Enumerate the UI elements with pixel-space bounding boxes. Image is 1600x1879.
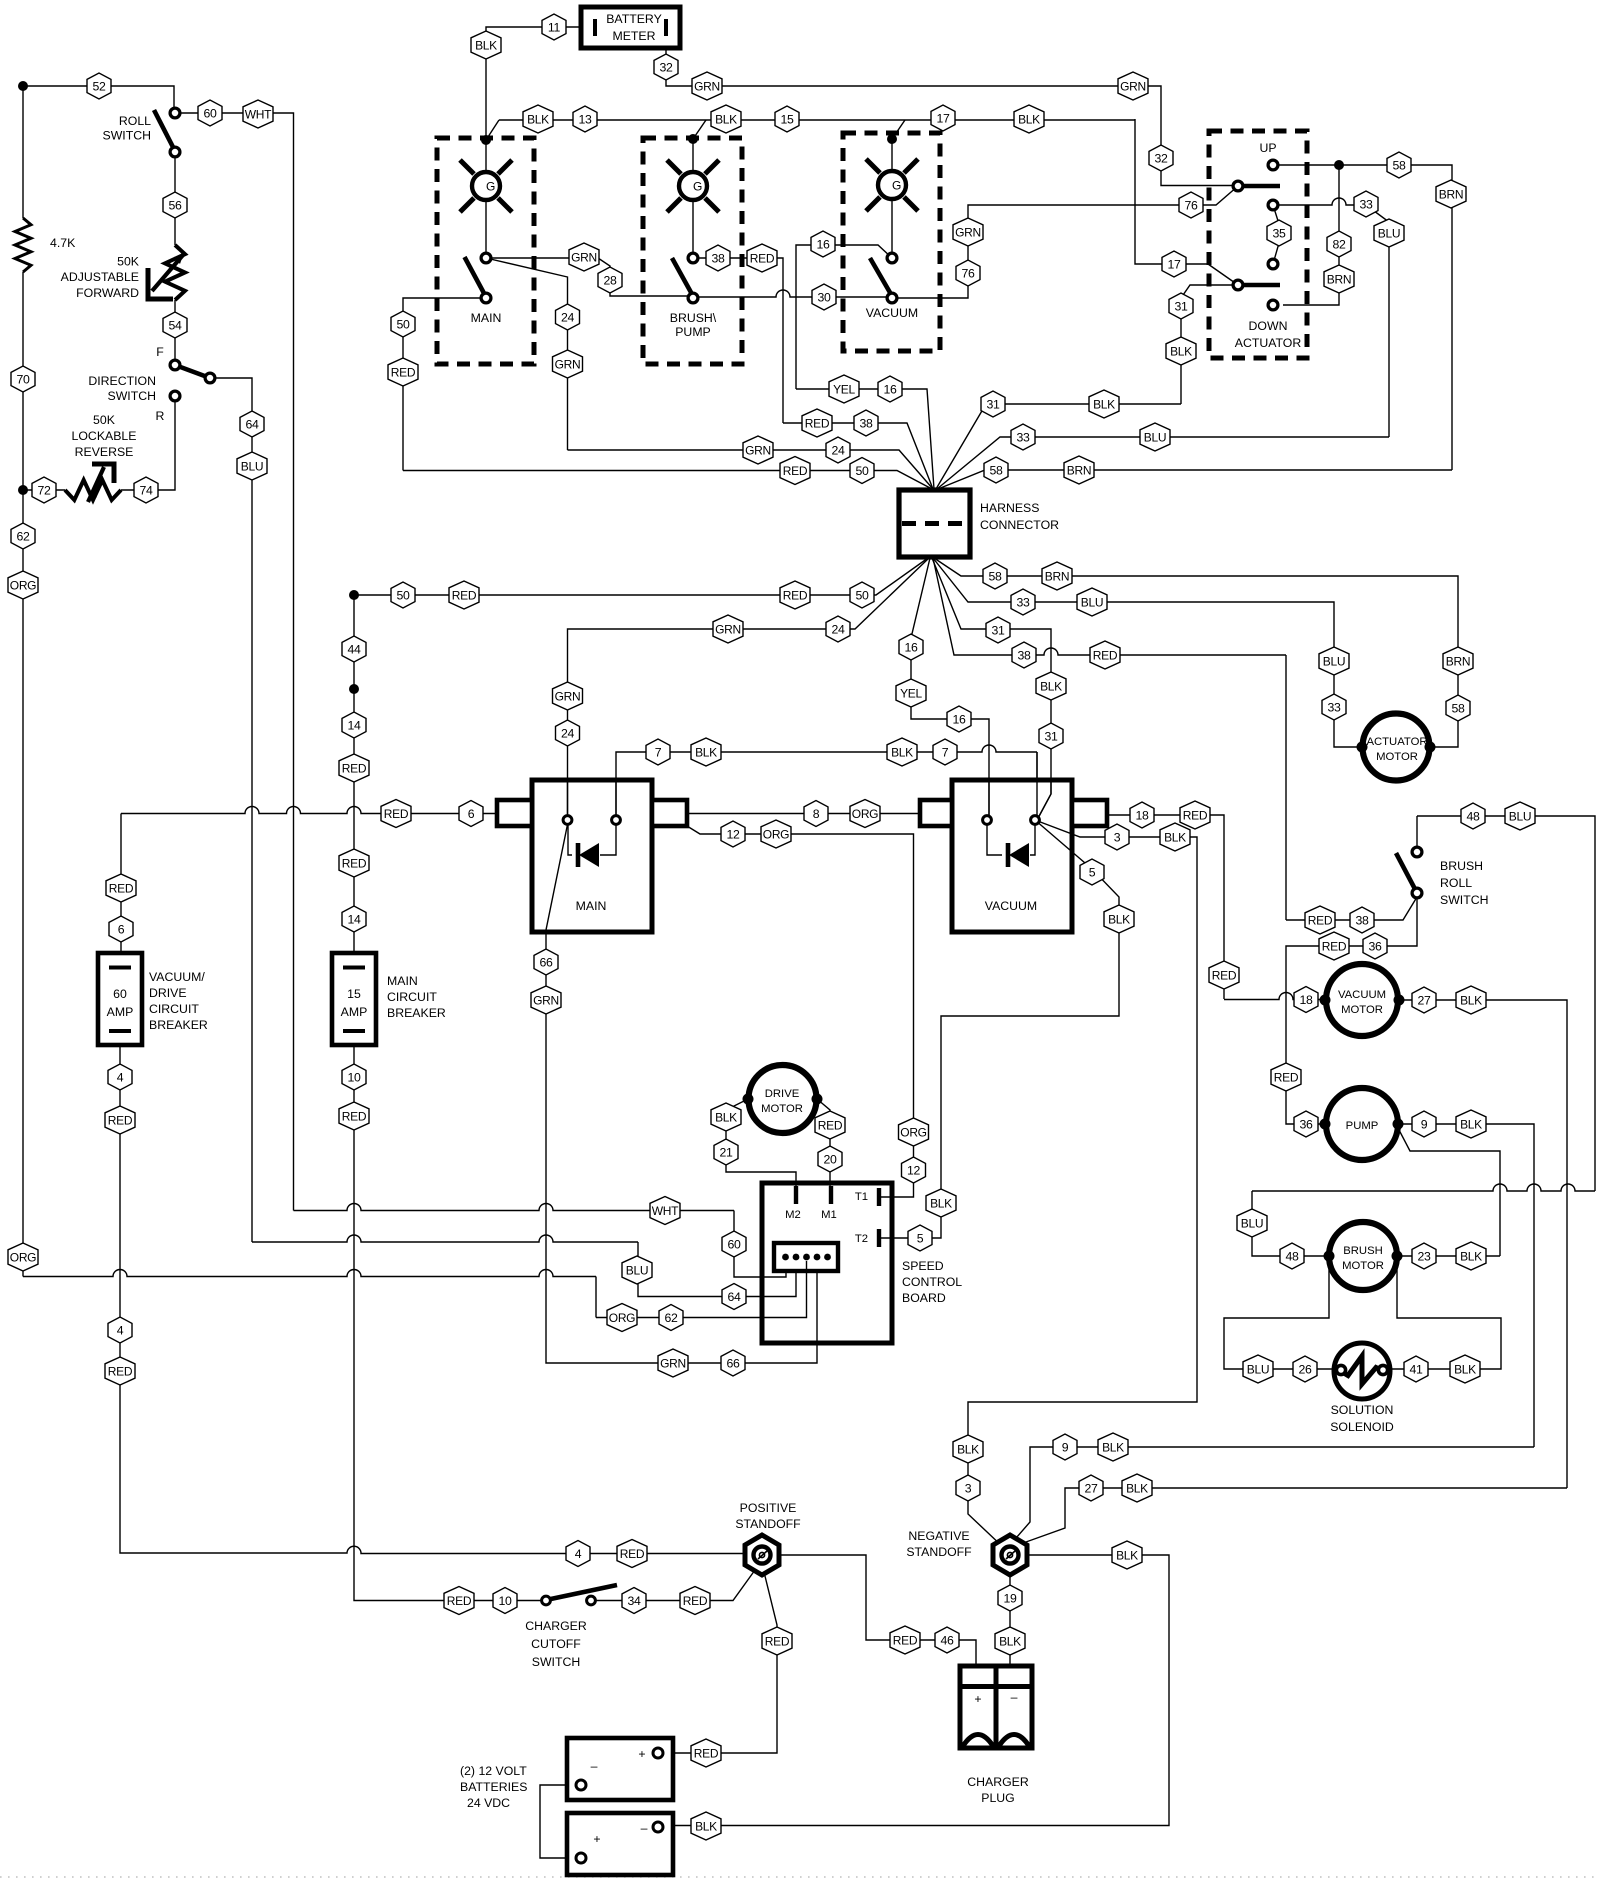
brush motor — [1329, 1222, 1397, 1290]
wire label hex 33 — [1354, 191, 1378, 217]
wire label hex BLK — [887, 738, 917, 766]
svg-text:CHARGER: CHARGER — [967, 1775, 1029, 1789]
junction up contact wire — [1334, 160, 1344, 170]
wire label hex BLK — [926, 1189, 956, 1217]
svg-text:5: 5 — [917, 1231, 924, 1245]
direction switch lever — [175, 365, 210, 378]
down actuator lower common — [1233, 280, 1243, 290]
wire label hex YEL — [896, 679, 926, 707]
svg-text:GRN: GRN — [745, 443, 771, 457]
wire label hex RED — [890, 1626, 920, 1654]
wire 7 blk row — [616, 745, 1037, 820]
svg-text:RED: RED — [765, 1634, 790, 1648]
brush coil terminal — [688, 253, 698, 263]
svg-text:3: 3 — [965, 1481, 972, 1495]
svg-text:BLK: BLK — [715, 112, 737, 126]
wire label hex 33 — [1322, 694, 1346, 720]
down actuator upper lever — [1238, 184, 1280, 189]
svg-text:BLK: BLK — [1460, 1117, 1482, 1131]
wire vacuum coil from junction — [891, 139, 893, 171]
svg-text:16: 16 — [883, 382, 897, 396]
wire label hex 16 — [811, 231, 835, 257]
wire label hex RED — [815, 1111, 845, 1139]
negative standoff — [993, 1535, 1027, 1575]
wire label hex RED — [802, 409, 832, 437]
wire positive standoff down to battery — [666, 1572, 777, 1753]
svg-text:BLK: BLK — [891, 745, 913, 759]
svg-text:50: 50 — [396, 317, 410, 331]
wire label hex 66 — [721, 1350, 745, 1376]
svg-text:15: 15 — [347, 987, 361, 1001]
svg-text:RED: RED — [342, 761, 367, 775]
svg-text:BLK: BLK — [715, 1110, 737, 1124]
svg-text:RED: RED — [342, 1109, 367, 1123]
svg-text:BRUSH: BRUSH — [1343, 1245, 1383, 1257]
svg-text:23: 23 — [1417, 1249, 1431, 1263]
wire label hex GRN — [713, 615, 743, 643]
svg-text:ACTUATOR: ACTUATOR — [1366, 736, 1427, 748]
svg-text:SOLENOID: SOLENOID — [1330, 1420, 1394, 1434]
svg-text:BLK: BLK — [1170, 344, 1192, 358]
svg-text:RED: RED — [805, 416, 830, 430]
wire 64 blu run to board — [252, 1235, 638, 1242]
wire vacuum left terminal riser — [988, 780, 990, 820]
svg-text:BLU: BLU — [1323, 654, 1345, 668]
svg-text:5: 5 — [1089, 865, 1096, 879]
junction 50 row — [349, 590, 359, 600]
svg-text:44: 44 — [347, 642, 361, 656]
direction switch F terminal — [170, 360, 180, 370]
battery 1 positive terminal — [653, 1748, 663, 1758]
wire label hex 64 — [722, 1284, 746, 1310]
brush roll switch lower terminal — [1412, 888, 1422, 898]
svg-text:–: – — [1011, 1690, 1018, 1704]
svg-text:50: 50 — [396, 588, 410, 602]
wire label hex 62 — [659, 1305, 683, 1331]
harness connector — [899, 490, 970, 557]
actuator motor right terminal — [1425, 742, 1436, 753]
svg-text:MOTOR: MOTOR — [761, 1103, 803, 1115]
wire positive standoff diag to 34 — [591, 1570, 755, 1601]
svg-text:BLU: BLU — [1509, 809, 1531, 823]
wire 82 brn link — [1283, 165, 1339, 305]
wire label hex BRN — [1443, 647, 1473, 675]
svg-text:M2: M2 — [785, 1209, 801, 1221]
wire label hex RED — [1305, 906, 1335, 934]
vacuum solenoid left terminal — [983, 816, 992, 825]
svg-text:33: 33 — [1359, 197, 1373, 211]
wire label hex 11 — [542, 14, 566, 40]
wire brn 58 to actuator motor — [0, 0, 1, 1]
svg-text:76: 76 — [1184, 198, 1198, 212]
svg-text:GRN: GRN — [555, 689, 581, 703]
wire 18 red from vacuum tab — [1107, 815, 1224, 999]
svg-text:POSITIVE: POSITIVE — [740, 1501, 797, 1515]
wire fan red38 bottom — [933, 558, 1286, 920]
svg-text:48: 48 — [1466, 809, 1480, 823]
wire meter junction diagonal — [486, 120, 499, 140]
wire label hex GRN — [553, 350, 583, 378]
svg-text:15: 15 — [780, 112, 794, 126]
svg-text:4: 4 — [575, 1547, 582, 1561]
svg-text:50: 50 — [855, 588, 869, 602]
wire label hex 70 — [11, 366, 35, 392]
svg-text:PUMP: PUMP — [1346, 1120, 1379, 1132]
wire red feeder to vacuum motor — [1223, 998, 1225, 1000]
board T1 terminal — [877, 1188, 881, 1206]
wire 4 red below 60a breaker — [120, 1045, 761, 1554]
svg-text:10: 10 — [498, 1594, 512, 1608]
potentiometer 50K adjustable forward — [148, 245, 185, 300]
svg-text:74: 74 — [139, 483, 153, 497]
svg-text:6: 6 — [468, 807, 475, 821]
svg-text:50: 50 — [855, 464, 869, 478]
wire brush G to coil terminal — [692, 200, 694, 253]
svg-text:34: 34 — [627, 1594, 641, 1608]
wire label hex BLK — [1160, 823, 1190, 851]
svg-text:9: 9 — [1421, 1117, 1428, 1131]
wire label hex 24 — [826, 437, 850, 463]
wire label hex 58 — [1387, 152, 1411, 178]
wire label hex 58 — [1446, 695, 1470, 721]
wire 27 blk standoff row — [1012, 1488, 1567, 1547]
down actuator dashed box — [1209, 131, 1307, 358]
wire label hex BLK — [711, 105, 741, 133]
svg-text:VACUUM: VACUUM — [1338, 989, 1386, 1001]
wire label hex 60 — [722, 1231, 746, 1257]
wire main G to coil terminal — [485, 200, 487, 253]
svg-text:38: 38 — [859, 416, 873, 430]
wire label hex RED — [339, 754, 369, 782]
wire wht from roll switch — [175, 113, 294, 1211]
svg-text:BREAKER: BREAKER — [149, 1018, 208, 1032]
junction brush relay top — [688, 134, 698, 144]
down actuator upper common — [1233, 181, 1243, 191]
wire label hex 31 — [1039, 723, 1063, 749]
wire label hex BLK — [1098, 1433, 1128, 1461]
svg-text:SWITCH: SWITCH — [103, 129, 152, 143]
svg-text:ORG: ORG — [900, 1125, 926, 1139]
wire label hex 31 — [981, 391, 1005, 417]
svg-text:(2) 12 VOLT: (2) 12 VOLT — [460, 1764, 527, 1778]
wire fan 31 bottom — [932, 558, 1051, 820]
svg-text:RED: RED — [1093, 648, 1118, 662]
svg-text:STANDOFF: STANDOFF — [906, 1545, 972, 1559]
svg-text:41: 41 — [1409, 1362, 1423, 1376]
svg-text:36: 36 — [1368, 939, 1382, 953]
svg-text:HARNESS: HARNESS — [980, 501, 1039, 515]
svg-text:RED: RED — [1212, 968, 1237, 982]
svg-text:27: 27 — [1417, 993, 1431, 1007]
svg-text:13: 13 — [578, 112, 592, 126]
svg-text:BLK: BLK — [1116, 1548, 1138, 1562]
vacuum solenoid diode — [1008, 843, 1029, 867]
wire label hex RED — [1209, 961, 1239, 989]
wire label hex 19 — [998, 1585, 1022, 1611]
main solenoid right terminal — [612, 816, 621, 825]
svg-text:35: 35 — [1272, 226, 1286, 240]
wire label hex GRN — [569, 243, 599, 271]
down actuator mid contact lower — [1268, 259, 1278, 269]
wire left rail lower — [22, 490, 24, 1258]
wire fan brn58 bottom — [934, 558, 1458, 747]
wire blk 13 15 17 top row — [499, 119, 1135, 121]
brush motor left terminal — [1324, 1251, 1335, 1262]
wire 14 red below breaker — [354, 1045, 546, 1601]
wire label hex 26 — [1293, 1356, 1317, 1382]
svg-text:BLU: BLU — [1081, 595, 1103, 609]
brush motor right terminal — [1392, 1251, 1403, 1262]
wire brush coil tap diagonal — [693, 120, 706, 139]
svg-text:30: 30 — [817, 290, 831, 304]
down actuator mid contact upper — [1268, 200, 1278, 210]
svg-text:BLK: BLK — [1040, 679, 1062, 693]
wire label hex 17 — [931, 105, 955, 131]
svg-text:BLK: BLK — [1126, 1481, 1148, 1495]
svg-text:72: 72 — [37, 483, 51, 497]
wire brn 58 top row — [938, 470, 1452, 489]
wire label hex 48 — [1280, 1243, 1304, 1269]
wire brush motor right drop — [1383, 1256, 1501, 1369]
wire label hex 10 — [342, 1064, 366, 1090]
charger cutoff left terminal — [542, 1596, 551, 1605]
wire label hex 72 — [32, 477, 56, 503]
svg-text:24: 24 — [561, 726, 575, 740]
main relay G coil — [460, 160, 512, 212]
wire pot to direction switch — [174, 300, 176, 361]
main coil terminal — [481, 253, 491, 263]
svg-text:19: 19 — [1003, 1591, 1017, 1605]
svg-text:38: 38 — [1355, 913, 1369, 927]
battery 2 — [567, 1813, 673, 1875]
wire label hex BLK — [1104, 905, 1134, 933]
wire label hex 5 — [908, 1225, 932, 1251]
svg-text:METER: METER — [612, 29, 655, 43]
svg-text:56: 56 — [168, 198, 182, 212]
wire label hex 27 — [1412, 987, 1436, 1013]
svg-text:ORG: ORG — [10, 1250, 36, 1264]
wire grn 66 drop — [546, 953, 817, 1363]
wire brush coil from junction — [692, 139, 694, 172]
wire label hex 20 — [818, 1146, 842, 1172]
svg-text:WHT: WHT — [652, 1204, 679, 1218]
svg-text:BLK: BLK — [957, 1442, 979, 1456]
svg-text:RED: RED — [783, 464, 808, 478]
wire label hex BLU — [1140, 423, 1170, 451]
wire label hex 41 — [1404, 1356, 1428, 1382]
wire fan yel16 bottom — [911, 558, 989, 820]
wire label hex 74 — [134, 477, 158, 503]
wire red 38 to brush roll switch — [1286, 897, 1417, 920]
svg-text:8: 8 — [813, 807, 820, 821]
wire label hex BLU — [1374, 219, 1404, 247]
wire label hex BLK — [995, 1627, 1025, 1655]
svg-text:RED: RED — [108, 1113, 133, 1127]
wire label hex 7 — [933, 739, 957, 765]
wire red 38 top row — [783, 423, 933, 489]
svg-text:BLK: BLK — [695, 1819, 717, 1833]
wire label hex BLK — [1456, 1110, 1486, 1138]
svg-text:GRN: GRN — [955, 225, 981, 239]
wire pump 9 blk — [1398, 1124, 1534, 1447]
wire label hex 38 — [706, 245, 730, 271]
drive motor left terminal — [743, 1094, 754, 1105]
wire wht riser 60 to board pin1 — [734, 1211, 786, 1278]
brush relay G coil — [667, 160, 719, 212]
svg-text:G: G — [892, 179, 901, 193]
wire label hex ORG — [850, 800, 880, 828]
wire label hex 50 — [391, 311, 415, 337]
svg-text:–: – — [591, 1759, 598, 1773]
main switch pivot — [481, 293, 491, 303]
wire label hex 6 — [459, 801, 483, 827]
wire label hex RED — [105, 1357, 135, 1385]
brush relay lever — [672, 258, 693, 296]
speed control board box — [762, 1183, 892, 1343]
svg-text:DRIVE: DRIVE — [765, 1088, 800, 1100]
wire negative standoff to charger plug — [1009, 1570, 1011, 1666]
actuator motor left terminal — [1357, 742, 1368, 753]
main solenoid box — [497, 780, 687, 932]
wire label hex 50 — [850, 458, 874, 484]
wire vacuum solenoid diode left — [987, 820, 1002, 855]
wire label hex 18 — [1130, 802, 1154, 828]
wire board pin3 org — [596, 1261, 807, 1318]
svg-text:RED: RED — [620, 1547, 645, 1561]
wire label hex 46 — [935, 1627, 959, 1653]
wire drive motor M1 chain — [817, 1099, 830, 1186]
wire label hex 15 — [775, 106, 799, 132]
wire label hex GRN — [658, 1349, 688, 1377]
wire label hex BLK — [523, 105, 553, 133]
svg-text:18: 18 — [1299, 993, 1313, 1007]
wire label hex BLK — [1112, 1541, 1142, 1569]
wire label hex GRN — [953, 218, 983, 246]
svg-text:CONNECTOR: CONNECTOR — [980, 518, 1059, 532]
svg-text:BLK: BLK — [999, 1634, 1021, 1648]
svg-text:64: 64 — [245, 417, 259, 431]
svg-text:GRN: GRN — [660, 1356, 686, 1370]
svg-text:BRN: BRN — [1045, 569, 1069, 583]
wire 18 red to vacuum motor — [1224, 993, 1325, 1000]
wire label hex 6 — [109, 916, 133, 942]
svg-text:MOTOR: MOTOR — [1376, 751, 1418, 763]
vacuum motor — [1326, 964, 1398, 1036]
svg-text:BLK: BLK — [527, 112, 549, 126]
wire label hex BLK — [1089, 390, 1119, 418]
wire vacuum pivot to grn 76 — [892, 186, 1238, 298]
svg-text:SWITCH: SWITCH — [532, 1655, 581, 1669]
svg-text:LOCKABLE: LOCKABLE — [72, 429, 137, 443]
wire label hex 7 — [646, 739, 670, 765]
svg-text:18: 18 — [1135, 808, 1149, 822]
svg-text:52: 52 — [92, 79, 106, 93]
svg-text:BRUSH: BRUSH — [1440, 859, 1483, 873]
pump motor — [1326, 1088, 1398, 1160]
wire label hex WHT — [243, 100, 273, 128]
svg-text:38: 38 — [711, 251, 725, 265]
svg-text:33: 33 — [1016, 430, 1030, 444]
wire label hex YEL — [829, 375, 859, 403]
wire vacuum motor 27 blk — [1399, 1000, 1567, 1488]
solution solenoid right terminal — [1378, 1365, 1387, 1374]
wire reverse pot to left rail — [23, 489, 65, 491]
wire label hex 52 — [87, 73, 111, 99]
wire label hex BLU — [1505, 802, 1535, 830]
svg-text:ORG: ORG — [763, 827, 789, 841]
svg-text:GRN: GRN — [715, 622, 741, 636]
svg-text:24: 24 — [831, 622, 845, 636]
wire main 12 org to T1 — [687, 826, 914, 1197]
svg-text:–: – — [641, 1821, 648, 1835]
svg-text:GRN: GRN — [1120, 79, 1146, 93]
junction main relay top — [481, 135, 491, 145]
svg-text:GRN: GRN — [571, 250, 597, 264]
svg-text:BLK: BLK — [1460, 993, 1482, 1007]
board M2 terminal — [794, 1186, 798, 1204]
svg-text:14: 14 — [347, 912, 361, 926]
wire label hex 62 — [11, 523, 35, 549]
svg-text:RED: RED — [384, 807, 409, 821]
wire brush motor 23 blk — [1397, 1255, 1500, 1257]
svg-text:ADJUSTABLE: ADJUSTABLE — [61, 270, 139, 284]
svg-text:BLU: BLU — [241, 459, 263, 473]
svg-text:9: 9 — [1062, 1440, 1069, 1454]
wire label hex 9 — [1412, 1111, 1436, 1137]
svg-text:UP: UP — [1259, 141, 1276, 155]
wire label hex RED — [388, 358, 418, 386]
svg-text:16: 16 — [816, 237, 830, 251]
svg-text:RED: RED — [342, 856, 367, 870]
svg-text:64: 64 — [727, 1290, 741, 1304]
wire blu 48 to brush motor — [1252, 1191, 1329, 1256]
svg-text:BRUSH\: BRUSH\ — [670, 311, 717, 325]
charger plug — [960, 1666, 1032, 1748]
svg-text:BATTERIES: BATTERIES — [460, 1780, 527, 1794]
svg-text:82: 82 — [1332, 237, 1346, 251]
wire label hex 64 — [240, 411, 264, 437]
wire label hex 30 — [812, 284, 836, 310]
wire label hex GRN — [1118, 72, 1148, 100]
svg-text:RED: RED — [109, 881, 134, 895]
svg-text:RED: RED — [108, 1364, 133, 1378]
svg-text:10: 10 — [347, 1070, 361, 1084]
svg-text:SOLUTION: SOLUTION — [1331, 1403, 1394, 1417]
svg-text:36: 36 — [1299, 1117, 1313, 1131]
svg-text:DRIVE: DRIVE — [149, 986, 187, 1000]
wire pump right diagonal — [1398, 1128, 1500, 1256]
vacuum motor left terminal — [1320, 995, 1331, 1006]
svg-text:BLK: BLK — [1102, 1440, 1124, 1454]
wire label hex RED — [780, 581, 810, 609]
wire label hex 36 — [1294, 1111, 1318, 1137]
wire label hex BLK — [1014, 105, 1044, 133]
down actuator down contact — [1268, 300, 1278, 310]
svg-text:ROLL: ROLL — [119, 114, 151, 128]
wire label hex BLK — [1456, 986, 1486, 1014]
wire main solenoid coil slant — [546, 822, 568, 953]
wire label hex 14 — [342, 906, 366, 932]
svg-text:28: 28 — [603, 273, 617, 287]
solution solenoid left terminal — [1336, 1365, 1345, 1374]
svg-text:VACUUM: VACUUM — [866, 306, 918, 320]
wire main solenoid diode left — [568, 820, 572, 855]
wire label hex 35 — [1267, 220, 1291, 246]
svg-text:+: + — [593, 1832, 600, 1846]
svg-text:BOARD: BOARD — [902, 1291, 946, 1305]
svg-text:7: 7 — [655, 745, 662, 759]
wire label hex RED — [106, 874, 136, 902]
